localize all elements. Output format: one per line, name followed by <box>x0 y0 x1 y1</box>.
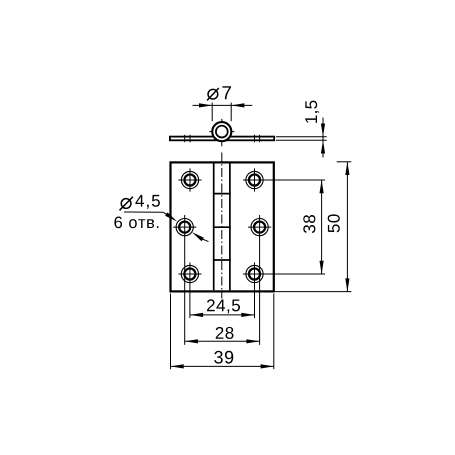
dimension 39 line <box>171 365 274 367</box>
dimension 28 line <box>185 340 260 342</box>
dimension 50 arrows <box>345 162 349 175</box>
leader second arrow lower-right <box>192 232 204 241</box>
dimension 39 arrows <box>171 364 184 368</box>
dimension 1,5 text <box>305 101 319 123</box>
dimension 1,5 line <box>322 118 324 158</box>
dimension 50 text <box>328 214 340 232</box>
dimension 24,5 line <box>190 314 255 316</box>
note text dia 4,5 <box>120 195 160 210</box>
dimension dia7 arrows <box>199 103 212 107</box>
hole H1 top-left <box>178 168 201 191</box>
dimension 50 extension lines <box>275 162 351 292</box>
knuckle pin inner circle (top view) <box>216 126 228 138</box>
hole H2 top-right <box>243 168 325 191</box>
hole tick marks on top view plate <box>185 135 260 142</box>
leader second tail line <box>201 239 209 242</box>
hole H6 bottom-right <box>243 262 325 318</box>
dimension 38 arrows <box>320 180 324 193</box>
front view leaf rectangle <box>171 162 274 291</box>
leader diagonal line <box>164 212 173 218</box>
dimension 28 text <box>216 327 234 339</box>
note text 6 holes <box>114 217 158 229</box>
knuckle barrel centerlines (top view) <box>209 119 234 147</box>
hole H5 bottom-left <box>178 262 201 318</box>
knuckle barrel outer circle (top view) <box>212 122 231 141</box>
pin axis centerline (dash-dot) <box>221 153 223 299</box>
hole H3 middle-left <box>173 215 196 345</box>
top view plate outline <box>170 137 274 141</box>
dimension 38 line <box>321 180 323 274</box>
dimension 39 text <box>214 351 233 364</box>
dimension 24,5 arrows <box>190 313 203 317</box>
dimension 1,5 extension lines (plate edges extended) <box>276 137 327 141</box>
knuckle division lines <box>213 194 231 260</box>
leader arrow into hole upper-left <box>165 212 177 221</box>
dimension 38 text <box>303 215 315 233</box>
knuckle strip edges (front view) <box>214 164 230 291</box>
dimension 1,5 arrows <box>321 124 325 137</box>
dimension dia7 text <box>207 86 231 100</box>
dimension 28 arrows <box>185 339 198 343</box>
dimension dia7 line <box>193 104 253 106</box>
dimension 24,5 text <box>207 299 240 313</box>
dimension 39 extension lines <box>171 294 274 370</box>
dimension 50 line <box>346 162 348 292</box>
hole H4 middle-right <box>248 215 271 345</box>
leader note shelf line <box>124 211 164 213</box>
dimension dia7 extension lines <box>212 103 231 122</box>
